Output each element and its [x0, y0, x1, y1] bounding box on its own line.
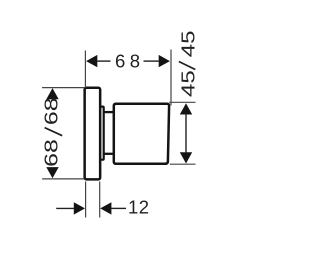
dimension 12 bottom: right tail: [111, 207, 126, 209]
extension line top-left (vertical, above escutcheon front): [84, 51, 86, 88]
stem top edge: [104, 111, 114, 113]
svg-text:68: 68: [41, 139, 62, 167]
dimension 12 bottom: right arrow: [100, 202, 111, 214]
dimension 68/68 left: top arrow: [46, 88, 58, 99]
extension line bottom-left (vertical, escutcheon front): [85, 182, 87, 218]
dimension 68 top: right arrow: [159, 55, 170, 67]
dimension 68/68 left: label slash (drawn): [45, 128, 63, 136]
svg-text:68: 68: [115, 51, 145, 72]
extension line left-bottom (horizontal, escutcheon bottom): [42, 178, 84, 180]
dimension 45/45 right: line between arrows: [185, 114, 187, 153]
dimension 12 bottom: left tail: [56, 207, 74, 209]
dimension 68 top: left tail: [97, 60, 111, 62]
svg-text:68: 68: [41, 97, 62, 125]
handle (cylinder side view): [114, 104, 169, 164]
svg-text:45: 45: [178, 70, 199, 97]
dimension 68 top: right tail: [144, 60, 160, 62]
svg-text:45: 45: [178, 30, 199, 57]
dimension 45/45 right: bottom arrow: [180, 152, 192, 163]
dimension 12 bottom: left arrow: [74, 202, 85, 214]
extension line bottom-right (vertical, escutcheon back): [99, 182, 101, 218]
extension line left-top (horizontal, escutcheon top): [42, 87, 84, 89]
extension line top-right (vertical, at handle right edge): [170, 50, 172, 106]
extension line right-top (horizontal, handle top): [169, 101, 195, 103]
escutcheon plate (side view): [85, 88, 101, 180]
collar behind handle: [100, 107, 104, 160]
extension line right-bottom (horizontal, handle bottom): [170, 163, 196, 165]
dimension 45/45 right: label slash (drawn): [179, 62, 196, 70]
dimension 68 top: left arrow: [86, 55, 97, 67]
stem bottom edge: [104, 153, 114, 155]
dimension 45/45 right: top arrow: [180, 103, 192, 114]
svg-text:12: 12: [128, 196, 150, 217]
dimension 68/68 left: bottom arrow: [46, 167, 58, 178]
